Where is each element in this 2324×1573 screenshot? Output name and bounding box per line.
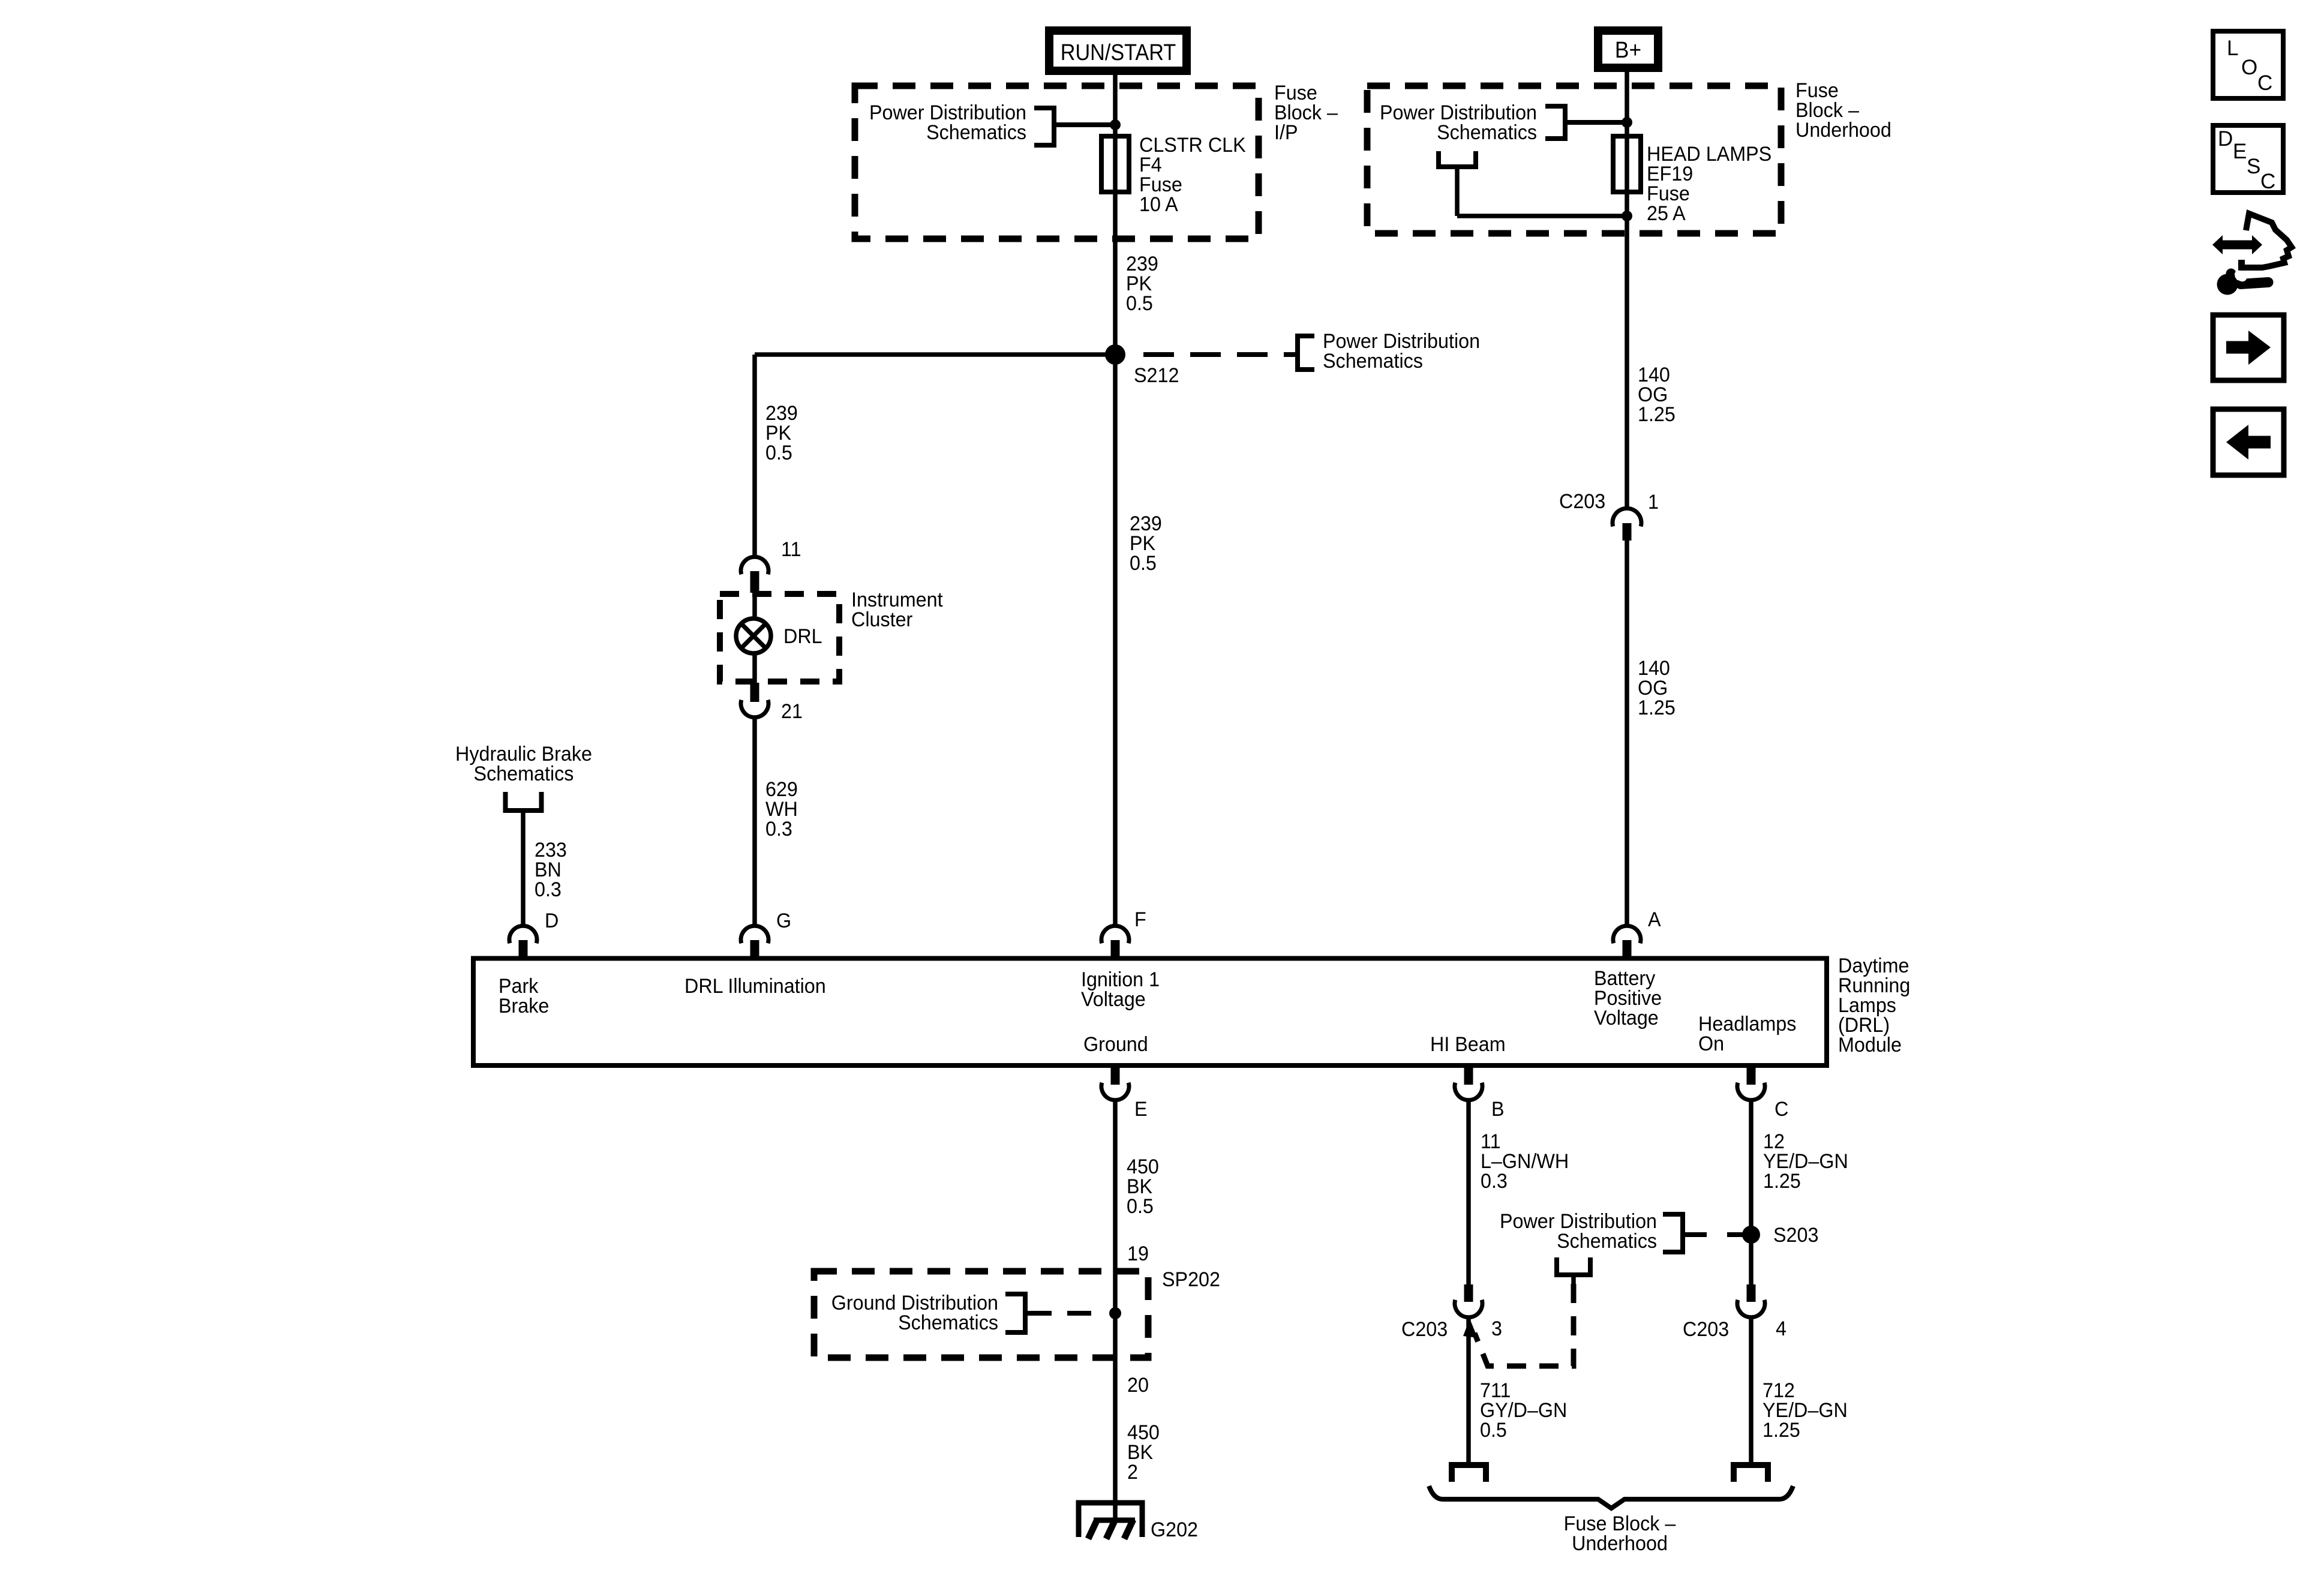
label Fuse Block - Underhood (bottom) [1564,1512,1676,1555]
svg-text:Voltage: Voltage [1081,988,1146,1011]
pin letter A [1648,908,1661,931]
terminal connector at fuse block (C wire) [1734,1465,1768,1482]
svg-text:0.5: 0.5 [1126,292,1153,315]
svg-text:0.5: 0.5 [765,442,792,464]
svg-text:E: E [2233,140,2247,163]
svg-text:1.25: 1.25 [1762,1419,1800,1442]
label C203 (pin 3) [1401,1318,1448,1341]
dashed reference line S212 to Power Distribution Schematics [1143,352,1298,357]
label Power Distribution Schematics (S203) [1500,1210,1657,1253]
wire 239 PK S212 to DRL module pin F [1113,355,1118,926]
label Ground Distribution Schematics [831,1292,998,1334]
label HI Beam [1430,1033,1506,1056]
svg-text:B+: B+ [1615,37,1641,62]
svg-text:4: 4 [1776,1317,1786,1340]
svg-text:DRL Illumination: DRL Illumination [684,975,826,998]
label 629 WH 0.3 [765,778,798,840]
pin letter C [1774,1098,1788,1121]
label S203 [1773,1224,1818,1247]
svg-text:D: D [2218,127,2233,151]
label SP202 [1162,1268,1220,1291]
svg-text:20: 20 [1127,1374,1149,1397]
label 140 OG 1.25 (above C203) [1638,364,1676,426]
node junction at F4 fuse top [1110,119,1121,130]
svg-text:S203: S203 [1773,1224,1818,1247]
reference bracket Power Distribution Schematics (I/P) [1034,108,1115,145]
label Fuse Block - Underhood (top right) [1795,79,1891,142]
wire 239 PK fuse F4 to S212 [1113,192,1118,355]
connector pin E of DRL module [1101,1068,1129,1100]
node junction at EF19 fuse top [1622,117,1632,128]
wire 450 BK pin E to SP202 [1113,1099,1118,1313]
icon LOC box [2213,31,2283,98]
pin letter E [1134,1098,1148,1121]
wire 11 L-GN/WH pin B to C203 pin 3 [1466,1099,1471,1286]
wire 140 OG C203 to DRL module pin A [1625,541,1629,926]
pin number 3 [1491,1317,1502,1340]
label 239 PK 0.5 (below S212) [1130,512,1162,575]
instrument cluster dashed box [720,594,839,682]
svg-text:Schematics: Schematics [1437,121,1537,144]
brace Fuse Block - Underhood [1429,1486,1793,1508]
wire 711 GY/D-GN C203 to fuse block underhood [1466,1316,1471,1464]
wire RUN/START to fuse F4 [1113,71,1118,139]
connector pin G of DRL module [741,926,768,958]
label Hydraulic Brake Schematics [455,743,592,785]
label 12 YE/D-GN 1.25 [1763,1130,1848,1193]
label S212 [1134,364,1179,387]
node splice SP202 [1109,1307,1121,1319]
connector pin 11 instrument cluster [741,557,768,593]
label Fuse Block - I/P [1274,82,1338,144]
pin number 11 [781,538,801,561]
svg-text:O: O [2241,56,2257,79]
svg-text:On: On [1698,1032,1724,1055]
svg-text:C: C [1774,1098,1788,1121]
node splice S212 [1105,344,1125,365]
wire 12 YE/D-GN pin C to S203 [1749,1099,1753,1286]
svg-text:Underhood: Underhood [1572,1532,1668,1555]
terminal connector at fuse block (B wire) [1452,1465,1486,1482]
label HEAD LAMPS EF19 Fuse 25 A [1647,143,1771,225]
svg-text:C203: C203 [1683,1318,1729,1341]
wire DRL lamp to pin 21 [752,653,757,684]
svg-text:G: G [776,909,791,932]
connector pin 21 instrument cluster [741,683,768,718]
svg-text:1.25: 1.25 [1638,697,1676,719]
label Ignition 1 Voltage [1081,968,1160,1011]
label CLSTR CLK F4 Fuse 10 A [1139,134,1246,216]
svg-text:Schematics: Schematics [898,1311,998,1334]
wire B+ to fuse EF19 [1625,68,1629,139]
wire pin 11 to DRL lamp [752,593,757,619]
svg-text:Schematics: Schematics [926,121,1026,144]
svg-text:E: E [1134,1098,1148,1121]
label 711 GY/D-GN 0.5 [1480,1379,1567,1442]
label 450 BK 2 [1127,1421,1160,1484]
node junction at EF19 fuse bottom [1622,211,1632,221]
icon previous-page arrow box [2213,409,2284,475]
label 712 YE/D-GN 1.25 [1762,1379,1848,1442]
label G202 [1151,1518,1198,1541]
svg-text:0.5: 0.5 [1127,1195,1154,1218]
wire 233 BN to DRL module pin D [521,810,526,926]
ground distribution dashed box [814,1271,1148,1358]
label Power Distribution Schematics (S212) [1323,330,1480,373]
label DRL [783,625,822,648]
pin letter D [545,909,559,932]
wire branch S212 to instrument cluster [755,355,1115,558]
svg-text:SP202: SP202 [1162,1268,1220,1291]
svg-text:3: 3 [1491,1317,1502,1340]
svg-text:Voltage: Voltage [1594,1007,1659,1029]
label C203 (pin 1) [1559,490,1605,513]
svg-text:10 A: 10 A [1139,193,1179,216]
svg-text:C: C [2260,170,2275,193]
svg-text:0.3: 0.3 [765,818,792,840]
reference bracket Ground Distribution [1005,1294,1025,1332]
svg-text:F: F [1134,908,1146,931]
connector C203 pin 4 [1737,1284,1765,1317]
label 239 PK 0.5 (DRL branch) [765,402,798,464]
label 239 PK 0.5 (above S212) [1126,253,1158,315]
svg-text:19: 19 [1127,1242,1149,1265]
label Battery Positive Voltage [1594,967,1662,1029]
dashed leader to connector C203 pin 3 [1463,1284,1574,1366]
svg-text:Schematics: Schematics [1323,350,1423,373]
svg-text:Underhood: Underhood [1795,119,1891,142]
reference bracket Power Distribution (S203) [1663,1214,1707,1252]
ground symbol G202 [1079,1503,1142,1539]
label Headlamps On [1698,1013,1796,1055]
svg-text:C: C [2257,71,2272,95]
connector pin A of DRL module [1613,926,1641,958]
label Power Distribution Schematics (Underhood) [1380,101,1537,144]
icon DESC box [2213,125,2283,193]
pin number 21 [781,700,803,723]
fuse EF19 HEAD LAMPS 25A [1613,136,1641,216]
label Power Distribution Schematics (I/P) [869,101,1026,144]
svg-text:B: B [1491,1098,1505,1121]
label Ground [1083,1033,1148,1056]
svg-text:1.25: 1.25 [1763,1170,1801,1193]
reference bracket Power Distribution Schematics (Underhood) [1545,106,1627,139]
svg-text:Module: Module [1838,1034,1902,1056]
pin letter F [1134,908,1146,931]
label Park Brake [499,975,549,1017]
pin letter G [776,909,791,932]
dashed link to S203 [1727,1232,1751,1237]
svg-text:25 A: 25 A [1647,202,1686,225]
svg-text:D: D [545,909,559,932]
svg-text:C203: C203 [1401,1318,1448,1341]
dashed reference line to SP202 [1028,1311,1107,1316]
connector pin B of DRL module [1455,1068,1482,1100]
reference U-bracket under Power Distribution (S203) [1557,1257,1590,1284]
label DRL Illumination [684,975,826,998]
connector pin C of DRL module [1737,1068,1765,1100]
svg-text:A: A [1648,908,1661,931]
svg-text:21: 21 [781,700,803,723]
pin number 4 [1776,1317,1786,1340]
svg-text:0.3: 0.3 [535,878,562,901]
pin number 19 [1127,1242,1149,1265]
pin letter B [1491,1098,1505,1121]
module Daytime Running Lamps DRL box [473,959,1827,1066]
svg-text:Cluster: Cluster [851,608,912,631]
label Instrument Cluster [851,589,943,631]
svg-text:Ground: Ground [1083,1033,1148,1056]
svg-text:1.25: 1.25 [1638,403,1676,426]
wire 450 BK SP202 to G202 [1113,1313,1118,1521]
fuse block I/P dashed box [855,86,1259,239]
fuse block Underhood dashed box [1367,86,1781,233]
label 11 L-GN/WH 0.3 [1481,1130,1569,1193]
svg-text:S: S [2247,155,2260,178]
connector pin D of DRL module [509,926,537,958]
svg-text:11: 11 [781,538,801,561]
icon next-page arrow box [2213,315,2284,380]
connector C203 pin 1 [1613,508,1641,541]
svg-text:0.5: 0.5 [1130,552,1157,575]
label C203 (pin 4) [1683,1318,1729,1341]
svg-text:0.3: 0.3 [1481,1170,1508,1193]
svg-text:G202: G202 [1151,1518,1198,1541]
reference U-bracket Hydraulic Brake [506,792,542,810]
wire 140 OG fuse EF19 to C203 pin 1 [1625,216,1629,510]
svg-text:Schematics: Schematics [474,763,574,785]
lamp DRL indicator [736,619,771,653]
power symbol B+ box [1598,31,1658,68]
icon harness repair (arrow wire wrench) [2212,214,2292,295]
svg-text:DRL: DRL [783,625,822,648]
svg-text:Brake: Brake [499,995,549,1017]
fuse F4 CLSTR CLK 10A [1101,136,1129,192]
node splice S203 [1742,1226,1760,1244]
label 233 BN 0.3 [535,839,567,901]
reference bracket at S212 dashed line [1298,336,1314,370]
label Daytime Running Lamps (DRL) Module [1838,954,1910,1056]
connector C203 pin 3 [1455,1284,1482,1317]
svg-text:I/P: I/P [1274,121,1298,144]
pin number 20 [1127,1374,1149,1397]
svg-text:L: L [2227,37,2238,60]
svg-text:HI Beam: HI Beam [1430,1033,1506,1056]
svg-text:1: 1 [1648,491,1659,514]
svg-text:2: 2 [1127,1461,1138,1484]
svg-text:S212: S212 [1134,364,1179,387]
label 140 OG 1.25 (below C203) [1638,657,1676,719]
svg-text:C203: C203 [1559,490,1605,513]
label 450 BK 0.5 [1127,1155,1159,1218]
reference U-bracket to EF19 output [1439,151,1627,216]
connector pin F of DRL module [1101,926,1129,958]
power symbol RUN/START box [1049,31,1187,71]
svg-text:Schematics: Schematics [1557,1230,1657,1253]
svg-text:0.5: 0.5 [1480,1419,1507,1442]
pin number 1 [1648,491,1659,514]
wire 712 YE/D-GN C203 to fuse block underhood [1749,1316,1753,1464]
svg-text:RUN/START: RUN/START [1061,39,1176,65]
wire 629 WH pin 21 to DRL module pin G [752,716,757,926]
